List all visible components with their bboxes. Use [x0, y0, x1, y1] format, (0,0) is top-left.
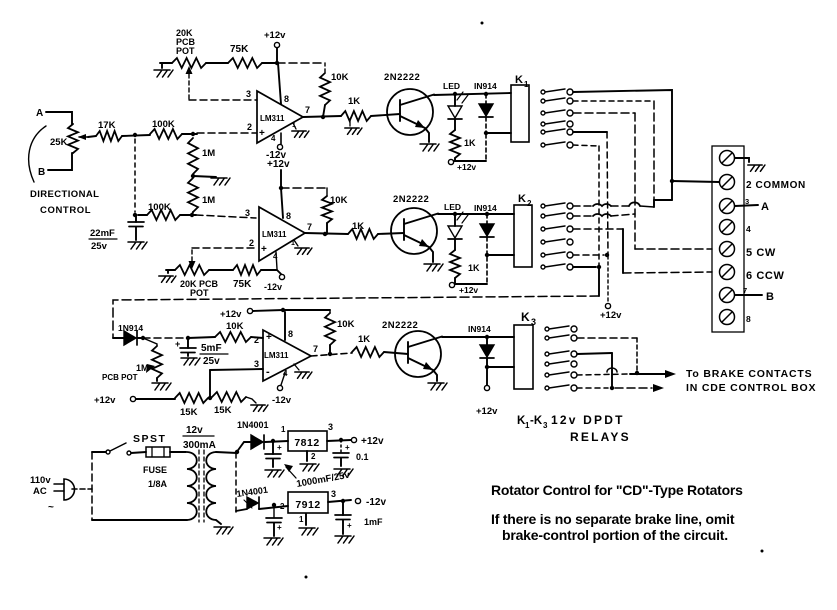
svg-text:300mA: 300mA	[183, 440, 216, 451]
svg-text:A: A	[36, 108, 43, 119]
svg-text:LM311: LM311	[264, 351, 289, 360]
svg-text:+: +	[277, 443, 282, 452]
svg-text:IN914: IN914	[474, 203, 497, 213]
svg-text:+12v: +12v	[264, 30, 286, 41]
svg-text:1: 1	[524, 80, 529, 89]
svg-text:-: -	[266, 366, 270, 378]
svg-text:25v: 25v	[91, 241, 108, 252]
svg-text:100K: 100K	[148, 202, 171, 213]
svg-text:IN914: IN914	[474, 81, 497, 91]
svg-text:2: 2	[280, 502, 285, 511]
svg-text:1: 1	[292, 122, 296, 129]
svg-text:0.1: 0.1	[356, 452, 369, 462]
svg-text:+12v: +12v	[220, 309, 242, 320]
svg-text:+12v: +12v	[94, 395, 116, 406]
svg-text:LED: LED	[443, 81, 460, 91]
svg-text:2N2222: 2N2222	[382, 320, 418, 331]
svg-text:K: K	[515, 74, 523, 86]
svg-text:1M: 1M	[202, 195, 215, 206]
svg-text:17K: 17K	[98, 120, 116, 131]
svg-text:LM311: LM311	[260, 114, 285, 123]
svg-text:100K: 100K	[152, 119, 175, 130]
svg-text:2: 2	[254, 335, 259, 345]
svg-text:75K: 75K	[233, 279, 252, 290]
svg-text:10K: 10K	[331, 72, 349, 83]
svg-text:2 COMMON: 2 COMMON	[746, 180, 806, 191]
svg-text:1N914: 1N914	[118, 323, 143, 333]
svg-text:1: 1	[281, 425, 286, 434]
svg-text:3: 3	[531, 317, 536, 327]
svg-text:10K: 10K	[226, 321, 244, 332]
svg-text:+12v: +12v	[267, 159, 290, 170]
svg-text:5 CW: 5 CW	[746, 247, 776, 259]
svg-text:To BRAKE CONTACTS: To BRAKE CONTACTS	[686, 368, 812, 380]
svg-text:25K: 25K	[50, 137, 68, 148]
svg-text:1K: 1K	[352, 221, 364, 232]
svg-text:10K: 10K	[337, 319, 355, 330]
svg-text:15K: 15K	[214, 405, 232, 416]
svg-text:+: +	[175, 339, 180, 349]
svg-text:1K: 1K	[464, 138, 476, 148]
svg-text:+: +	[261, 244, 267, 255]
svg-text:POT: POT	[176, 46, 195, 56]
svg-text:8: 8	[288, 329, 293, 339]
svg-text:4: 4	[273, 252, 278, 261]
svg-text:7: 7	[305, 105, 310, 115]
svg-text:8: 8	[284, 94, 289, 104]
svg-text:110v: 110v	[30, 475, 51, 486]
svg-text:3: 3	[328, 422, 333, 432]
svg-text:2N2222: 2N2222	[393, 194, 429, 205]
svg-text:2: 2	[249, 238, 254, 248]
svg-text:-K: -K	[530, 415, 543, 427]
svg-text:+12v: +12v	[457, 162, 476, 172]
svg-text:4: 4	[746, 224, 751, 234]
svg-text:1/8A: 1/8A	[148, 479, 168, 489]
svg-text:1K: 1K	[348, 96, 360, 107]
svg-text:8: 8	[746, 314, 751, 324]
svg-text:K: K	[518, 193, 526, 205]
svg-text:4: 4	[271, 134, 276, 143]
svg-text:~: ~	[48, 502, 54, 513]
svg-text:+12v: +12v	[459, 285, 478, 295]
svg-text:2N2222: 2N2222	[384, 72, 420, 83]
svg-text:LED: LED	[444, 202, 461, 212]
svg-text:B: B	[766, 291, 774, 303]
svg-text:A: A	[761, 201, 769, 213]
svg-text:FUSE: FUSE	[143, 465, 167, 475]
svg-text:Rotator Control for "CD"-Type: Rotator Control for "CD"-Type Rotators	[491, 482, 743, 498]
svg-text:LM311: LM311	[262, 230, 287, 239]
svg-text:+12v: +12v	[361, 436, 384, 447]
svg-text:+: +	[345, 443, 350, 452]
svg-text:7: 7	[313, 344, 318, 354]
svg-text:12v: 12v	[186, 425, 203, 436]
svg-text:IN CDE CONTROL BOX: IN CDE CONTROL BOX	[686, 382, 816, 394]
svg-text:2: 2	[247, 122, 252, 132]
svg-text:-12v: -12v	[264, 282, 282, 292]
svg-text:7: 7	[307, 222, 312, 232]
svg-text:+12v: +12v	[600, 310, 622, 321]
svg-text:brake-control portion of the c: brake-control portion of the circuit.	[502, 527, 728, 543]
svg-text:PCB POT: PCB POT	[102, 373, 138, 382]
svg-text:7912: 7912	[295, 499, 320, 511]
svg-text:If there is no separate brake: If there is no separate brake line, omit	[491, 511, 735, 527]
svg-text:22mF: 22mF	[90, 228, 115, 239]
svg-text:-12v: -12v	[272, 395, 292, 406]
svg-text:POT: POT	[190, 288, 209, 298]
svg-text:5mF: 5mF	[201, 343, 222, 354]
svg-text:CONTROL: CONTROL	[40, 205, 91, 216]
svg-text:+: +	[277, 523, 282, 532]
svg-text:1K: 1K	[468, 263, 480, 273]
svg-text:6 CCW: 6 CCW	[746, 270, 784, 282]
svg-text:1N4001: 1N4001	[237, 420, 269, 430]
svg-text:3: 3	[543, 421, 548, 430]
svg-text:SPST: SPST	[133, 433, 166, 445]
svg-text:12v DPDT: 12v DPDT	[551, 413, 625, 427]
svg-text:15K: 15K	[180, 407, 198, 418]
svg-text:IN914: IN914	[468, 324, 491, 334]
svg-text:+: +	[259, 128, 265, 139]
svg-text:1K: 1K	[358, 334, 370, 345]
svg-text:25v: 25v	[203, 356, 220, 367]
svg-text:3: 3	[254, 359, 259, 369]
svg-text:1M: 1M	[202, 148, 215, 159]
svg-text:B: B	[38, 167, 45, 178]
svg-text:AC: AC	[33, 486, 47, 497]
svg-text:3: 3	[331, 489, 336, 499]
svg-text:3: 3	[245, 208, 250, 218]
svg-text:+: +	[347, 521, 352, 530]
svg-text:3: 3	[246, 89, 251, 99]
svg-text:75K: 75K	[230, 44, 249, 55]
svg-text:2: 2	[311, 452, 316, 461]
svg-text:1: 1	[299, 515, 304, 524]
svg-text:2: 2	[527, 199, 532, 208]
svg-text:+: +	[266, 332, 272, 343]
svg-text:K: K	[521, 310, 530, 324]
svg-text:+12v: +12v	[476, 406, 498, 417]
svg-text:DIRECTIONAL: DIRECTIONAL	[30, 189, 99, 200]
svg-text:7812: 7812	[294, 437, 319, 449]
svg-text:-12v: -12v	[366, 497, 386, 508]
svg-text:8: 8	[286, 211, 291, 221]
svg-text:1M: 1M	[136, 363, 149, 373]
svg-text:1mF: 1mF	[364, 517, 383, 527]
svg-text:RELAYS: RELAYS	[570, 430, 631, 444]
svg-text:10K: 10K	[330, 195, 348, 206]
svg-text:7: 7	[743, 286, 747, 295]
